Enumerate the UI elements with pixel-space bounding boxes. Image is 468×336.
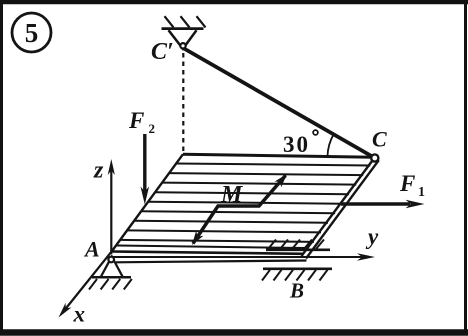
plate bottom thickness line [116, 261, 307, 263]
svg-text:M: M [220, 182, 244, 208]
svg-text:z: z [93, 158, 104, 184]
svg-text:5: 5 [25, 18, 39, 48]
top support hatching [165, 16, 206, 27]
top support bar [162, 27, 204, 30]
plate left edge [112, 154, 183, 251]
svg-text:x: x [73, 302, 86, 327]
pin circle at C [371, 154, 378, 161]
label 30deg [283, 130, 318, 157]
svg-text:F: F [128, 108, 144, 133]
plate right edge inner line [302, 158, 375, 256]
plate hatch line last [116, 246, 306, 249]
svg-text:y: y [365, 224, 379, 249]
moment M arrow [192, 174, 287, 245]
svg-text:A: A [83, 237, 100, 262]
plate hatch lines [120, 164, 370, 242]
top support triangle [169, 30, 197, 49]
force F1 arrow [341, 200, 425, 209]
pin circle at C' [180, 43, 185, 48]
label F1 [399, 171, 425, 200]
support B lower bar [263, 267, 332, 270]
plate top edge [183, 154, 374, 157]
svg-text:1: 1 [418, 185, 425, 200]
support B upper bar [266, 249, 330, 252]
pin circle at A [108, 257, 114, 263]
svg-text:C′: C′ [151, 39, 174, 65]
circled 5 [12, 13, 51, 52]
svg-text:2: 2 [149, 121, 156, 136]
support B lower hatching [262, 270, 328, 281]
y axis [112, 253, 375, 261]
z axis [108, 159, 115, 254]
support A triangle [101, 257, 123, 277]
plate bottom edge [113, 252, 304, 254]
support A base [92, 276, 131, 279]
dashed line C' to plate corner [182, 53, 184, 152]
force F2 arrow [141, 134, 150, 205]
x axis [59, 251, 113, 318]
rod C'C [184, 49, 374, 158]
support A hatching [89, 279, 132, 290]
30 degree arc [328, 134, 334, 157]
svg-text:F: F [399, 171, 415, 196]
label F2 [128, 108, 155, 136]
support B upper hatching [268, 240, 324, 250]
svg-text:30: 30 [283, 132, 310, 157]
svg-text:B: B [289, 279, 304, 303]
svg-text:C: C [372, 127, 387, 152]
plate right edge outer line [306, 160, 379, 258]
